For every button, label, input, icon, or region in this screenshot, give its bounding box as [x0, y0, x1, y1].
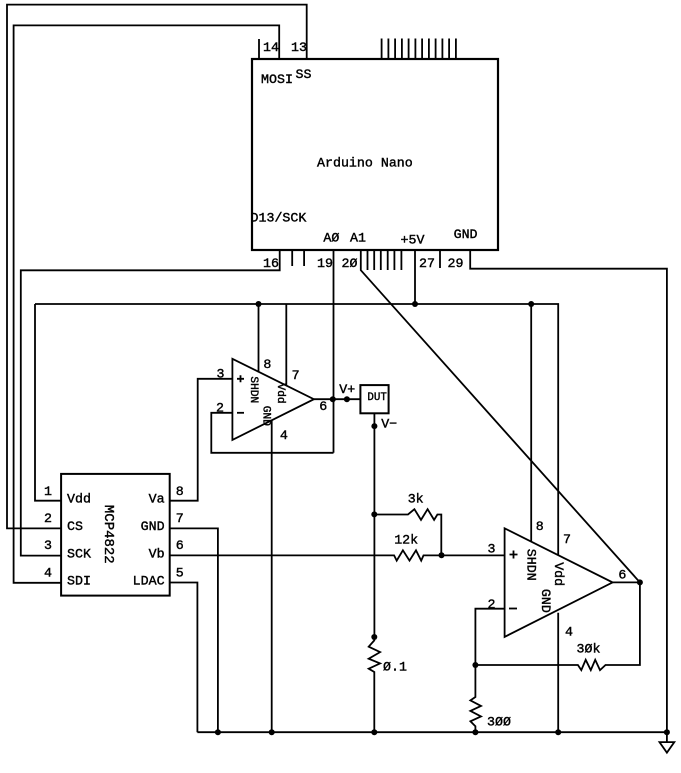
svg-text:GND: GND	[454, 227, 478, 242]
svg-text:3: 3	[217, 367, 225, 382]
svg-text:Vdd: Vdd	[551, 562, 566, 586]
wire MCP GND to bottom rail	[170, 528, 218, 732]
wire A1 (pin20) diagonal to U2 output	[361, 250, 640, 582]
svg-text:2: 2	[488, 597, 496, 612]
svg-text:Va: Va	[149, 492, 165, 507]
node V+ label point	[344, 396, 350, 402]
svg-text:4: 4	[280, 428, 288, 443]
svg-text:GND: GND	[538, 589, 553, 613]
wire V- sense from DUT down to 0.1	[373, 413, 375, 637]
wire +5V rail to MCP Vdd pin1	[35, 304, 61, 501]
Arduino Nano box U3	[252, 59, 498, 250]
svg-text:12k: 12k	[394, 532, 418, 547]
node 3k/12k to U2 input	[439, 552, 445, 558]
svg-text:4: 4	[44, 566, 52, 581]
wire op-amp U1 Vdd supply	[285, 304, 287, 386]
node pin27 on +5V rail	[412, 301, 418, 307]
svg-text:3Øk: 3Øk	[577, 642, 601, 657]
svg-text:13: 13	[291, 40, 307, 55]
resistor 3k	[374, 509, 441, 555]
node U2 output	[637, 579, 643, 585]
wire A0 (pin19) to U1 output node	[333, 250, 335, 453]
svg-text:27: 27	[419, 256, 435, 271]
wire U1 feedback to inverting input	[211, 413, 333, 453]
wire SS (pin13) to MCP CS	[7, 5, 307, 529]
MCP4822 box U4	[61, 474, 170, 596]
wire bottom ground rail	[197, 731, 667, 733]
wire U2 SHDN supply	[530, 304, 532, 542]
svg-text:29: 29	[448, 256, 464, 271]
svg-text:2: 2	[44, 511, 52, 526]
U2 plus sign	[510, 551, 518, 559]
DUT box	[360, 385, 388, 413]
wire +5V rail	[35, 304, 558, 555]
wire MCP LDAC to bottom rail	[170, 583, 198, 733]
svg-text:SDI: SDI	[67, 574, 91, 589]
node 0.1 on bottom rail	[371, 729, 377, 735]
svg-text:7: 7	[563, 532, 571, 547]
svg-text:GND: GND	[260, 406, 272, 426]
node MCP GND on bottom rail	[215, 729, 221, 735]
svg-text:A1: A1	[350, 231, 366, 246]
svg-text:Ø.1: Ø.1	[383, 660, 407, 675]
svg-text:3k: 3k	[408, 492, 424, 507]
svg-text:1: 1	[44, 484, 52, 499]
svg-text:7: 7	[176, 511, 184, 526]
svg-text:+5V: +5V	[401, 233, 425, 248]
svg-text:MOSI: MOSI	[261, 72, 293, 87]
node V- label point	[371, 423, 377, 429]
svg-text:14: 14	[263, 40, 279, 55]
node U2 SHDN on +5V rail	[528, 301, 534, 307]
svg-text:8: 8	[536, 519, 544, 534]
svg-text:GND: GND	[141, 519, 165, 534]
svg-text:3ØØ: 3ØØ	[487, 715, 511, 730]
op-amp U1 triangle	[232, 359, 314, 440]
wire D13/SCK (pin16) to MCP SCK	[21, 250, 280, 556]
svg-text:6: 6	[176, 538, 184, 553]
resistor 12k with wire MCP Vb to U2 non-inverting input	[170, 550, 505, 560]
wire MOSI (pin14) to MCP SDI	[14, 25, 280, 582]
svg-text:V−: V−	[381, 416, 397, 431]
svg-text:DUT: DUT	[367, 392, 387, 404]
svg-text:SHDN: SHDN	[247, 376, 259, 403]
ground symbol	[660, 732, 675, 753]
node V- to 3k	[371, 511, 377, 517]
unconnected stub left of pin 14	[258, 39, 260, 59]
node U2 GND on bottom rail	[555, 729, 561, 735]
svg-text:2: 2	[216, 401, 224, 416]
svg-text:7: 7	[292, 368, 300, 383]
node U2 feedback / 30k / 300	[472, 662, 478, 668]
op-amp U2 triangle	[505, 528, 613, 637]
svg-text:2Ø: 2Ø	[342, 256, 358, 271]
Arduino top header stubs	[382, 39, 456, 60]
svg-text:4: 4	[565, 625, 573, 640]
svg-text:SCK: SCK	[67, 547, 91, 562]
wire U1 output to DUT	[314, 398, 361, 400]
svg-text:LDAC: LDAC	[133, 574, 165, 589]
wire U2 output	[613, 581, 640, 583]
node U1 SHDN on +5V rail	[256, 301, 262, 307]
svg-text:19: 19	[317, 256, 333, 271]
svg-text:Vdd: Vdd	[67, 492, 91, 507]
svg-text:8: 8	[176, 484, 184, 499]
svg-text:Vb: Vb	[149, 547, 165, 562]
wire U1 GND pin4 to bottom rail	[271, 420, 273, 732]
U2 minus sign	[509, 608, 517, 610]
U1 plus sign	[237, 375, 244, 382]
wire op-amp U1 SHDN supply	[258, 304, 260, 372]
svg-text:MCP4822: MCP4822	[100, 505, 116, 564]
svg-text:SHDN: SHDN	[524, 549, 539, 581]
wire GND (pin29) to bottom rail	[470, 250, 667, 732]
resistor 300	[470, 665, 481, 732]
svg-text:Vdd: Vdd	[274, 384, 286, 404]
node ground corner	[664, 729, 670, 735]
node U1 GND on bottom rail	[269, 729, 275, 735]
svg-text:V+: V+	[339, 382, 355, 397]
wire U2 inverting input to feedback node	[475, 609, 504, 665]
node top of 0.1	[371, 634, 377, 640]
node U1 output / A0	[330, 396, 336, 402]
node 300 on bottom rail	[472, 729, 478, 735]
U1 minus sign	[237, 412, 244, 414]
svg-text:SS: SS	[296, 67, 312, 82]
resistor 0.1 shunt	[369, 637, 380, 732]
svg-text:CS: CS	[67, 519, 83, 534]
svg-text:3: 3	[44, 538, 52, 553]
svg-text:16: 16	[263, 256, 279, 271]
svg-text:D13/SCK: D13/SCK	[251, 211, 307, 226]
svg-text:3: 3	[488, 541, 496, 556]
resistor 30k with wire from U2 output node	[475, 582, 640, 670]
wire U2 GND pin4 to bottom rail	[557, 613, 559, 733]
svg-text:5: 5	[176, 566, 184, 581]
svg-text:AØ: AØ	[323, 231, 339, 246]
wire pin27 +5V stub	[414, 250, 416, 304]
wire MCP Va to U1 non-inverting input	[170, 379, 233, 501]
svg-text:8: 8	[263, 357, 271, 372]
svg-text:6: 6	[618, 568, 626, 583]
Arduino bottom unconnected stubs	[292, 250, 440, 270]
svg-text:Arduino Nano: Arduino Nano	[317, 156, 413, 171]
svg-text:6: 6	[319, 399, 327, 414]
